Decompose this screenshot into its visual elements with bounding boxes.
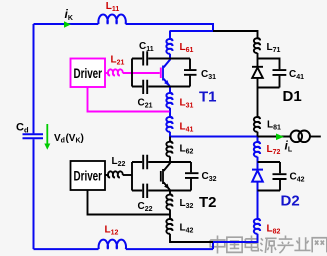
svg-text:Driver: Driver [74, 169, 103, 184]
svg-text:D2: D2 [281, 193, 300, 210]
svg-text:T2: T2 [199, 194, 217, 211]
svg-text:Driver: Driver [74, 66, 103, 81]
svg-text:D1: D1 [283, 88, 302, 105]
svg-text:T1: T1 [199, 89, 217, 106]
